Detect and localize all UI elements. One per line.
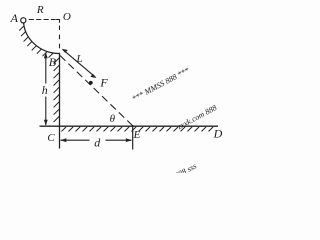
- dashed radius line O-B: [56, 20, 60, 23]
- svg-text:E: E: [133, 129, 141, 141]
- svg-text:O: O: [63, 11, 71, 23]
- svg-text:F: F: [99, 76, 108, 90]
- h dimension line: [45, 54, 47, 84]
- ground line C-D: [40, 125, 219, 127]
- arc hatching (fixed surface ticks outside quarter circle): [19, 26, 53, 58]
- h bottom arrowhead: [44, 120, 48, 126]
- d dimension line: [61, 139, 90, 141]
- svg-text:L: L: [75, 53, 82, 65]
- svg-text:θ: θ: [110, 113, 116, 125]
- svg-text:B: B: [49, 55, 57, 69]
- svg-text:h: h: [42, 83, 48, 97]
- ground hatching: [62, 127, 214, 131]
- point F dot: [89, 81, 93, 85]
- svg-text:D: D: [213, 126, 223, 140]
- L upper arrowhead: [62, 49, 68, 53]
- svg-text:d: d: [94, 135, 101, 149]
- L lower arrowhead: [90, 74, 96, 78]
- dashed trajectory B-E: [60, 56, 133, 126]
- E tick mark: [132, 125, 134, 150]
- watermark: [26, 62, 241, 240]
- wall line B-C: [59, 54, 61, 149]
- svg-text:C: C: [47, 132, 55, 144]
- h top arrowhead: [44, 52, 48, 58]
- d right arrowhead: [126, 138, 132, 142]
- dashed radius line A-O: [29, 19, 56, 21]
- d left arrowhead: [60, 138, 66, 142]
- L dimension arrow B-F: [63, 50, 96, 78]
- wall hatching: [54, 58, 60, 122]
- quarter-circle track A to B: [24, 20, 60, 54]
- svg-text:A: A: [10, 11, 19, 25]
- point A circle: [21, 18, 26, 23]
- svg-text:R: R: [36, 4, 44, 16]
- label h (with white gap): [42, 84, 50, 97]
